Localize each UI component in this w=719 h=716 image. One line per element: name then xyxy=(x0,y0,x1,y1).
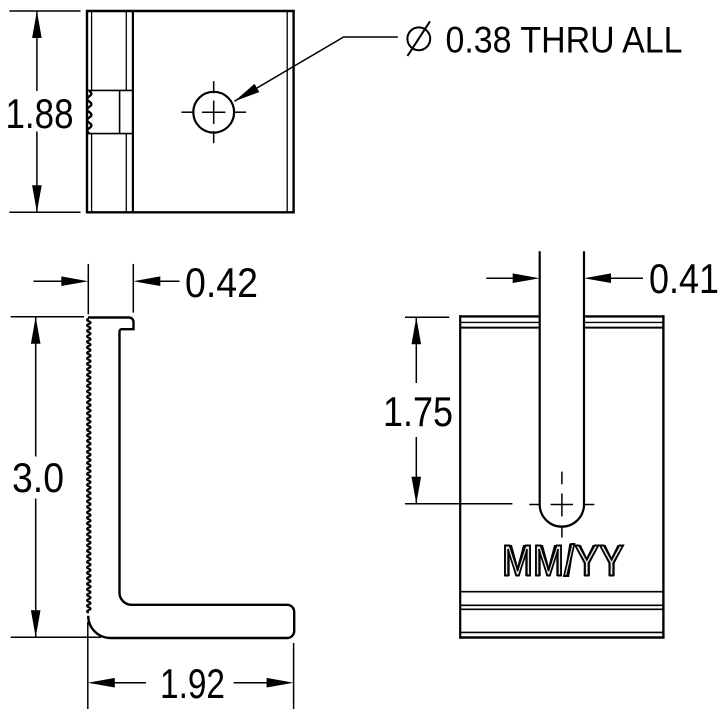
side view serrated edge xyxy=(87,319,90,613)
dimension 3.0 arrowheads xyxy=(31,317,41,344)
back view bottom grooves xyxy=(460,592,663,633)
svg-text:MM/YY: MM/YY xyxy=(502,537,624,586)
dimension 1.88 line xyxy=(36,11,38,212)
dimension 1.88 extension lines xyxy=(9,11,80,212)
front view outline xyxy=(86,10,295,213)
dimension 1.92 line xyxy=(115,682,267,684)
svg-text:0.38 THRU ALL: 0.38 THRU ALL xyxy=(446,19,683,61)
hole leader line xyxy=(235,37,398,101)
svg-text:0.42: 0.42 xyxy=(185,259,258,306)
svg-text:0.41: 0.41 xyxy=(649,255,719,302)
back view top grooves xyxy=(460,322,663,327)
svg-text:1.75: 1.75 xyxy=(383,388,453,435)
clamp tab (front view) xyxy=(87,90,133,133)
dimension 1.75 extension lines xyxy=(405,317,512,504)
dimension 1.92 arrowheads xyxy=(88,678,115,688)
svg-text:1.88: 1.88 xyxy=(6,90,74,137)
dimension 3.0 extension lines xyxy=(11,317,101,638)
dimension 0.42 line and arrows xyxy=(34,280,180,282)
dimension 1.92 extension lines xyxy=(88,622,294,709)
svg-text:1.92: 1.92 xyxy=(160,660,225,707)
slot xyxy=(540,251,584,526)
diameter symbol xyxy=(407,21,430,56)
dimension 1.75 arrowheads xyxy=(412,317,422,344)
hole xyxy=(193,92,234,133)
dimension 3.0 line xyxy=(35,317,37,638)
dimension 1.88 arrowheads xyxy=(32,11,42,38)
side view profile outline xyxy=(88,318,294,639)
back view outline xyxy=(459,315,664,638)
dimension 0.41 line and arrows xyxy=(486,277,643,279)
slot centerline xyxy=(529,472,594,538)
dimension 0.42 extension lines xyxy=(88,264,133,314)
hole center mark xyxy=(181,81,246,143)
leader arrowhead xyxy=(235,84,260,101)
dimension 1.75 line xyxy=(415,317,417,504)
svg-text:3.0: 3.0 xyxy=(12,454,64,501)
tab serration (edge-on) xyxy=(87,91,91,133)
